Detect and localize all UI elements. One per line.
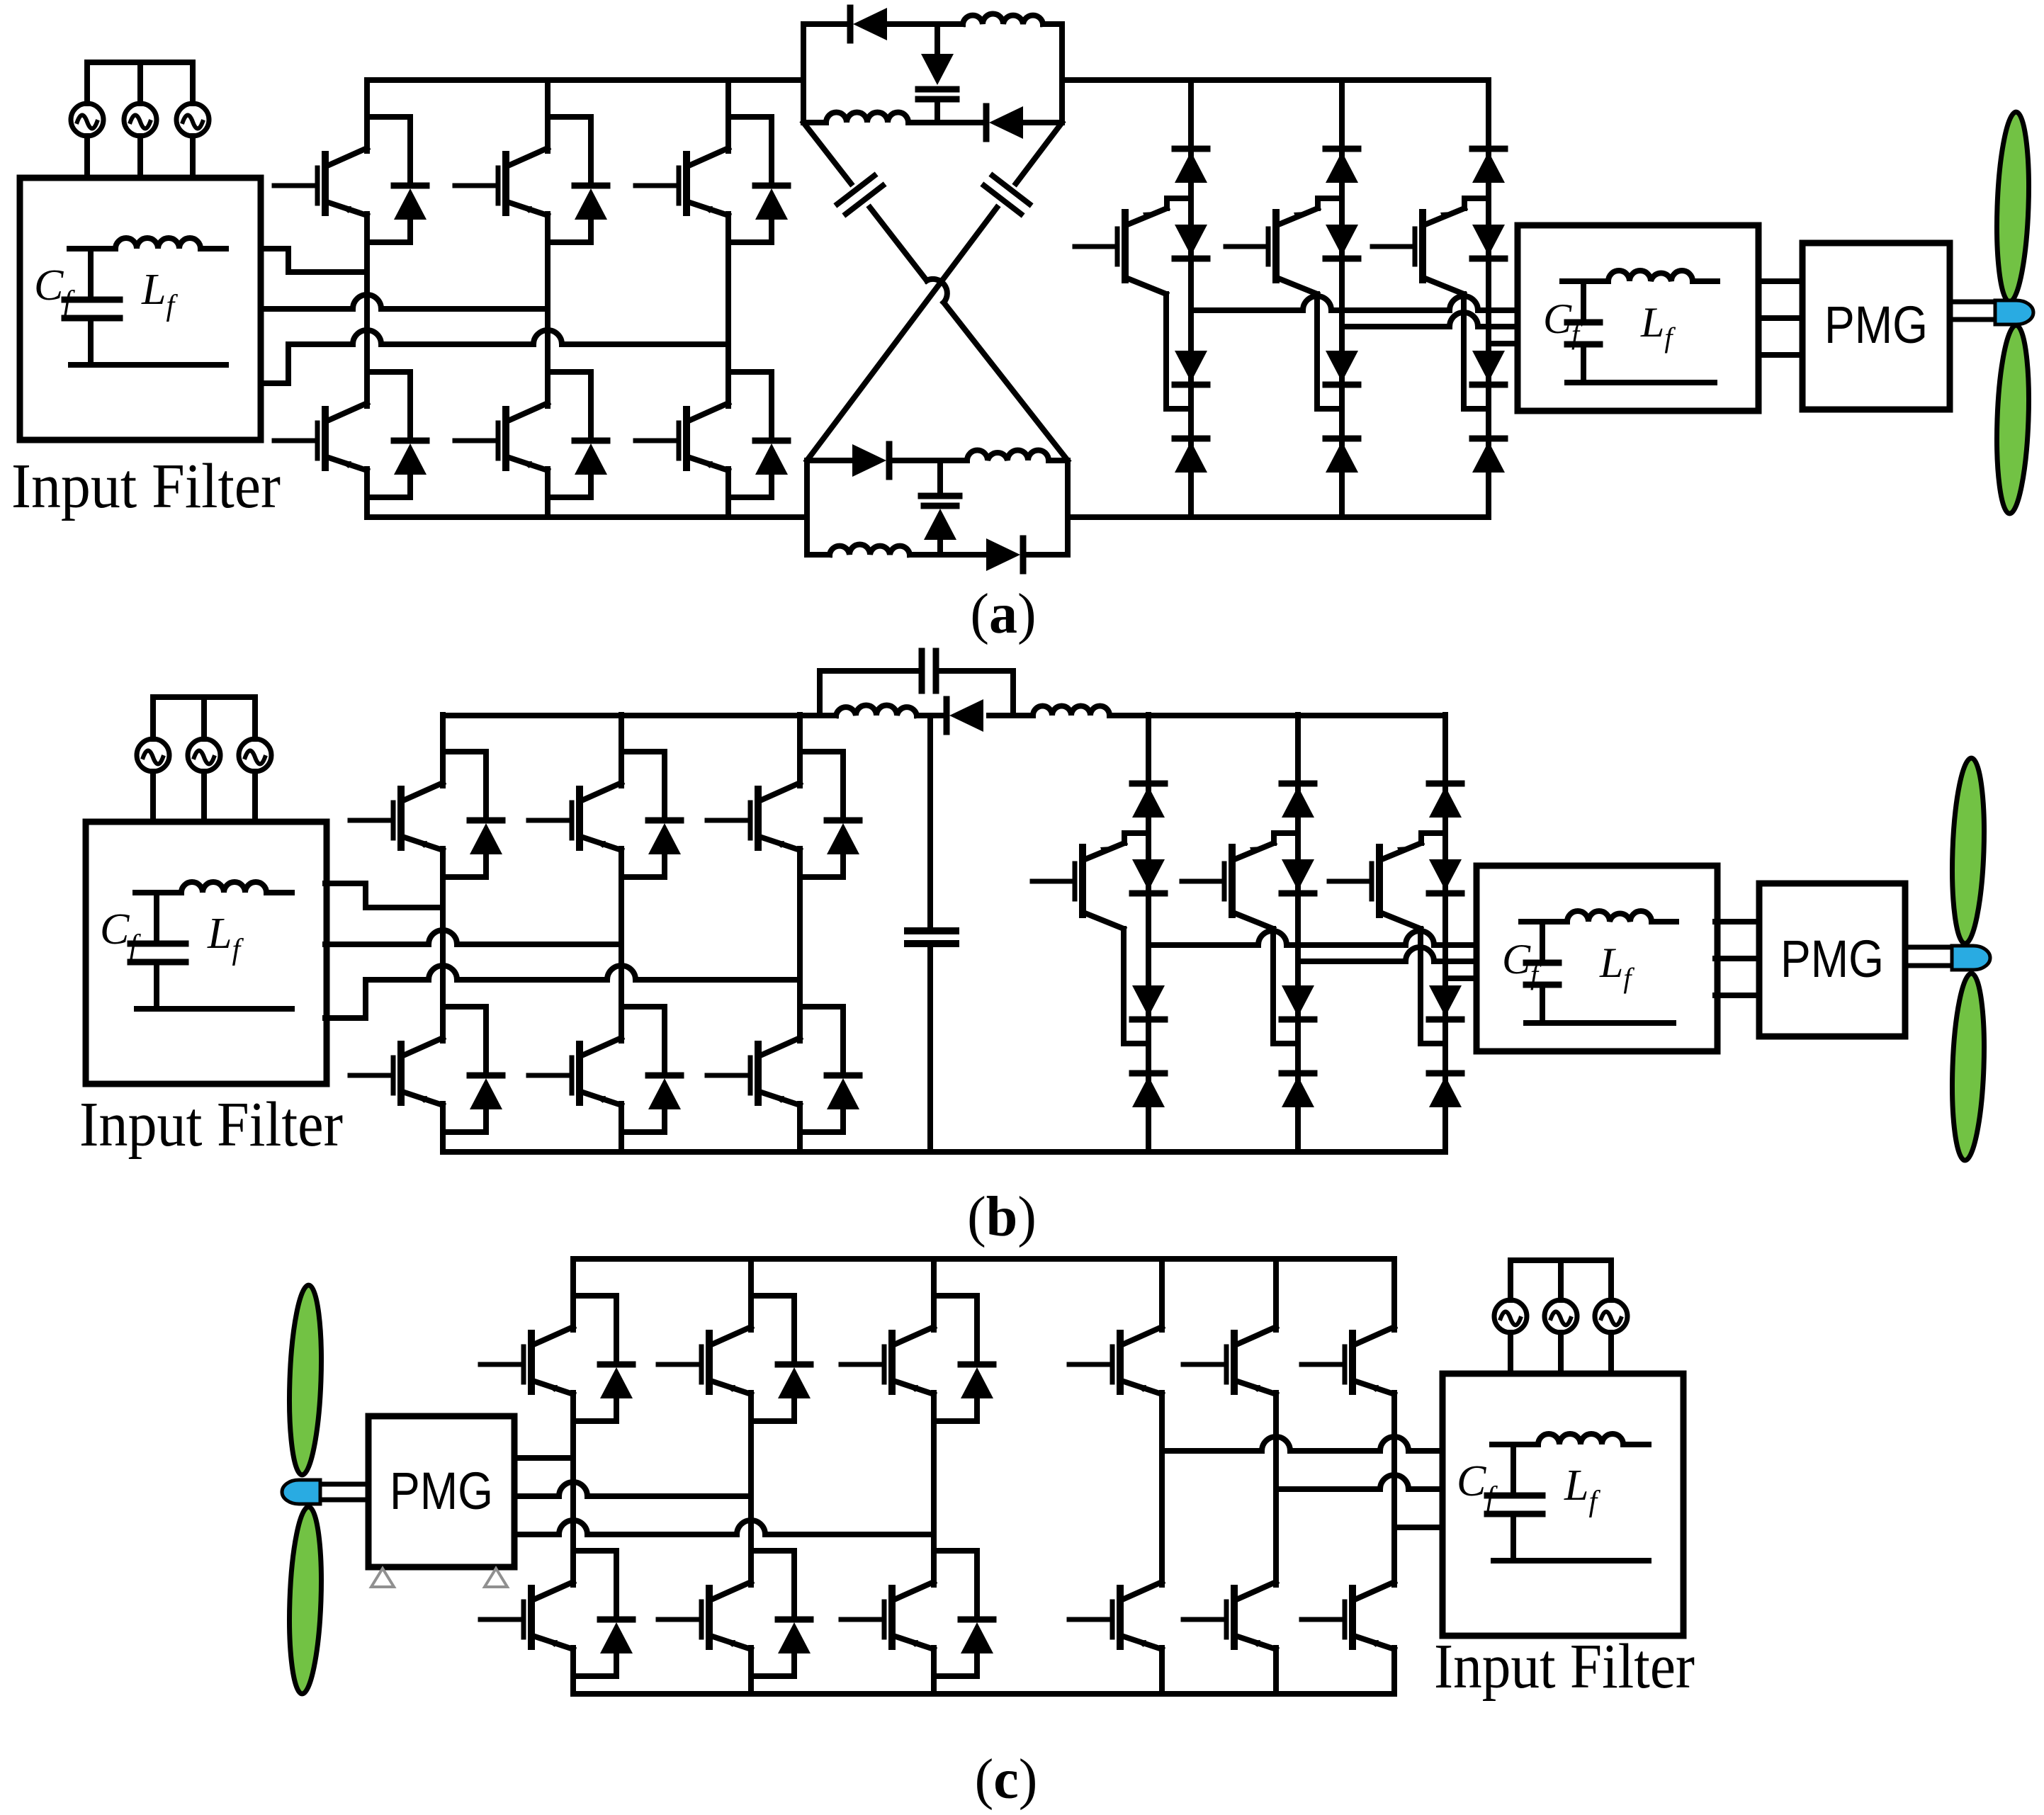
block b PMG box [1759, 883, 1905, 1036]
block a output output filter box [1518, 225, 1758, 411]
wire b output filter bottom rail [1526, 1020, 1673, 1026]
wire a output filter top rail [1562, 278, 1717, 284]
label c input Cf [1457, 1457, 1498, 1514]
inductor a input Lf [115, 238, 201, 249]
capacitor a-C4 (mid) [921, 493, 959, 499]
wire a cross diagonal 1 with hop [803, 123, 1068, 460]
capacitor a output Cf [1567, 281, 1600, 383]
wire c bottom bus [573, 1691, 1394, 1697]
wire b output phase 3 [1445, 976, 1476, 981]
wire c right leg2 emitter to bus [1273, 1676, 1279, 1694]
wire b snubber loop [820, 671, 1013, 716]
AC source b grid2 [188, 697, 220, 822]
diode b-S1 lower-mid [1132, 985, 1165, 1019]
label a input Cf [34, 261, 75, 318]
wire b phase C filter to leg3 [325, 966, 800, 1018]
wire a filter-PMG link 3 [1758, 352, 1802, 358]
inductor a-L4 (bottom-rect bottom edge) [830, 545, 910, 555]
wire c right leg3 midpoint vertical [1391, 1421, 1397, 1585]
node a top-rect right vertical [1059, 24, 1065, 123]
AC source c grid1 [1494, 1260, 1527, 1374]
svg-text:PMG: PMG [1780, 929, 1884, 988]
diode a-S1 bottom [1175, 439, 1207, 473]
transistor a-Q6 with diode a-D6 (lower) [636, 335, 788, 497]
transistor b-Q5 with diode b-D5 (lower) [529, 970, 681, 1132]
AC source c grid2 [1545, 1260, 1577, 1374]
wire c grid phase 1 [1162, 1437, 1442, 1451]
wire a output phase 3 [1489, 341, 1518, 346]
capacitor b-C2 (DC link) [908, 716, 956, 1152]
diode a-D11 (points right) [986, 538, 1023, 571]
inductor b input Lf [181, 882, 266, 893]
wire c input filter bottom rail [1494, 1558, 1649, 1564]
wire a-S2 leg vertical [1339, 80, 1345, 517]
diode a-D9 (mid, points down) [918, 54, 956, 89]
label a Input Filter [11, 451, 281, 521]
wire c shaft [315, 1484, 368, 1500]
diode a-D12 (mid, points up) [924, 506, 956, 540]
wire c right leg3 emitter to bus [1391, 1676, 1397, 1694]
label c input Lf [1564, 1461, 1600, 1518]
transistor b-S2 IGBT [1182, 833, 1298, 915]
diode b-S1 bottom [1132, 1073, 1165, 1107]
wire a VSI bottom bus [367, 514, 807, 520]
svg-text:Input Filter: Input Filter [1434, 1632, 1695, 1702]
diode b-S3 upper-mid [1429, 859, 1462, 893]
wire a-S3 leg vertical [1486, 80, 1491, 517]
diode b-S1 top [1132, 784, 1165, 818]
diode b-S3 bottom [1429, 1073, 1462, 1107]
AC source a grid1 [71, 62, 103, 178]
diode b-S2 lower-mid [1282, 985, 1314, 1019]
wire a bottom-rect bottom edge [807, 552, 1068, 558]
propeller b hub [1952, 946, 1990, 970]
wire a output phase 1 [1191, 296, 1518, 310]
capacitor a-C2 (left diagonal) [837, 176, 883, 214]
AC source b grid3 [239, 697, 271, 822]
transistor b-Q1 with diode b-D1 (upper) [350, 715, 502, 877]
wire c grid source top bus [1511, 1257, 1611, 1263]
capacitor c input Cf [1487, 1444, 1542, 1561]
label b output Lf [1599, 939, 1634, 994]
label (c) [975, 1748, 1038, 1811]
svg-text:(b): (b) [967, 1186, 1037, 1248]
diode a-S2 top [1326, 149, 1358, 183]
transistor c-Q7 (upper, no diode) [1069, 1259, 1162, 1421]
capacitor b-C1 (snubber) [922, 651, 936, 691]
transistor b-Q2 with diode b-D2 (upper) [529, 715, 681, 877]
wire a-S2 emitter bypass [1277, 278, 1342, 409]
inductor a-L2 (top-rect bottom edge) [826, 113, 908, 123]
transistor c-Q3 with diode c-D3 (upper) [841, 1259, 993, 1421]
diode a-S3 upper-mid [1472, 225, 1505, 259]
wire a leg1 emitter to bus [364, 497, 370, 517]
propeller a top blade [1994, 111, 2031, 302]
AC source c grid3 [1595, 1260, 1627, 1374]
wire a bottom-rect mid vertical [937, 460, 943, 555]
wire b-S3 emitter bypass [1380, 912, 1445, 1044]
block c PMG box [368, 1416, 514, 1567]
wire b shaft [1905, 947, 1957, 966]
transistor a-S3 IGBT [1372, 198, 1489, 280]
svg-text:PMG: PMG [1824, 295, 1928, 354]
inductor a-L3 (bottom-rect top edge) [967, 450, 1049, 460]
inductor b-L1 (top bus) [836, 706, 917, 716]
AC source b grid1 [137, 697, 169, 822]
diode a-S1 upper-mid [1175, 225, 1207, 259]
block b output output filter box [1476, 866, 1717, 1051]
label b Input Filter [79, 1090, 343, 1160]
inductor c input Lf [1538, 1434, 1623, 1444]
svg-text:Cf: Cf [1457, 1457, 1498, 1514]
diode a-S3 bottom [1472, 439, 1505, 473]
svg-text:Lf: Lf [141, 266, 178, 322]
label a PMG [1824, 295, 1928, 354]
svg-text:Lf: Lf [1564, 1461, 1600, 1518]
diode a-S2 upper-mid [1326, 225, 1358, 259]
wire a output phase 2 [1342, 312, 1518, 327]
wire a top-rect bottom edge [803, 120, 1062, 125]
transistor a-S2 IGBT [1226, 198, 1342, 280]
wire b leg2 midpoint vertical [619, 877, 624, 1041]
svg-text:Lf: Lf [1599, 939, 1634, 994]
block a PMG box [1802, 243, 1950, 409]
transistor a-Q5 with diode a-D5 (lower) [455, 335, 607, 497]
wire c PMG phase 3 [514, 1520, 934, 1534]
svg-text:Cf: Cf [100, 905, 141, 962]
svg-text:PMG: PMG [390, 1461, 493, 1520]
wire a leg3 emitter to bus [725, 497, 731, 517]
propeller a hub [1995, 300, 2033, 324]
wire a input filter top rail [69, 246, 226, 251]
wire b-S3 leg vertical [1442, 715, 1448, 1152]
wire b output phase 1 [1148, 931, 1476, 945]
wire a leg2 emitter to bus [545, 497, 550, 517]
diode b-S3 top [1429, 784, 1462, 818]
wire b leg2 emitter to bus [619, 1132, 624, 1152]
label b input Lf [207, 910, 244, 966]
wire a output filter bottom rail [1567, 380, 1715, 385]
propeller c top blade [286, 1284, 324, 1475]
wire a phase A filter to leg1 [261, 249, 367, 272]
node a bottom-rect right vertical [1065, 460, 1071, 555]
transistor b-Q4 with diode b-D4 (lower) [350, 970, 502, 1132]
wire b-S2 leg vertical [1295, 715, 1301, 1152]
wire c left leg2 midpoint vertical [748, 1421, 754, 1585]
wire a-S3 emitter bypass [1423, 278, 1489, 409]
svg-text:(c): (c) [975, 1748, 1038, 1811]
svg-text:Cf: Cf [1543, 295, 1583, 350]
wire c left leg1 emitter to bus [570, 1676, 576, 1694]
ground c right support [485, 1568, 507, 1587]
wire a grid source top bus [87, 60, 193, 65]
diode b-S3 lower-mid [1429, 985, 1462, 1019]
label b output Cf [1502, 936, 1542, 990]
wire b leg3 midpoint vertical [797, 877, 803, 1041]
wire b output filter top rail [1521, 919, 1676, 925]
wire c right leg2 midpoint vertical [1273, 1421, 1279, 1585]
svg-text:Lf: Lf [207, 910, 244, 966]
wire c grid phase 2 [1276, 1475, 1442, 1489]
wire a right bottom bus [1068, 514, 1489, 520]
svg-text:Input Filter: Input Filter [11, 451, 281, 521]
wire b leg1 emitter to bus [440, 1132, 446, 1152]
capacitor a-C3 (right diagonal) [984, 176, 1029, 214]
propeller b bottom blade [1949, 973, 1987, 1160]
wire c right leg1 midpoint vertical [1159, 1421, 1165, 1585]
transistor c-Q1 with diode c-D1 (upper) [480, 1259, 633, 1421]
inductor b output Lf [1567, 911, 1651, 922]
block a input Input Filter box [20, 178, 261, 440]
wire b DC bottom bus [443, 1149, 1445, 1155]
inductor b-L2 (top bus) [1033, 706, 1109, 716]
transistor c-Q12 (lower, no diode) [1302, 1514, 1394, 1676]
diode a-S3 lower-mid [1472, 351, 1505, 385]
diode b-S2 bottom [1282, 1073, 1314, 1107]
wire b leg3 emitter to bus [797, 1132, 803, 1152]
diode a-S1 top [1175, 149, 1207, 183]
node a bottom-rect left vertical [804, 460, 810, 555]
wire c grid phase 3 [1394, 1525, 1442, 1530]
wire a top-rect mid vertical [935, 24, 940, 123]
wire b filter-PMG link 3 [1715, 993, 1759, 998]
transistor a-S1 IGBT [1075, 198, 1191, 280]
svg-text:Lf: Lf [1640, 299, 1676, 354]
transistor b-S3 IGBT [1329, 833, 1445, 915]
wire a bottom-rect top edge [807, 458, 1068, 463]
wire a leg3 midpoint vertical [725, 242, 731, 406]
label b PMG [1780, 929, 1884, 988]
inductor a-L1 (top edge) [963, 14, 1043, 24]
transistor a-Q1 with diode a-D1 (upper) [274, 80, 427, 242]
label c Input Filter [1434, 1632, 1695, 1702]
capacitor a-C1 (mid) [918, 96, 956, 103]
transistor c-Q6 with diode c-D6 (lower) [841, 1514, 993, 1676]
wire c right leg1 emitter to bus [1159, 1676, 1165, 1694]
wire b grid source top bus [153, 694, 255, 700]
wire b-S1 leg vertical [1146, 715, 1151, 1152]
wire c left leg2 emitter to bus [748, 1676, 754, 1694]
label b input Cf [100, 905, 141, 962]
diode a-D8 (top-rect bottom edge, points left) [986, 106, 1023, 139]
wire c left leg1 midpoint vertical [570, 1421, 576, 1585]
svg-text:Cf: Cf [1502, 936, 1542, 990]
capacitor a input Cf [64, 249, 120, 365]
propeller a bottom blade [1994, 324, 2031, 514]
diode a-S2 bottom [1326, 439, 1358, 473]
diode b-S2 upper-mid [1282, 859, 1314, 893]
diode b-S1 upper-mid [1132, 859, 1165, 893]
propeller b top blade [1949, 757, 1987, 944]
wire a right top bus [1062, 77, 1489, 83]
transistor c-Q9 (upper, no diode) [1302, 1259, 1394, 1421]
wire a VSI top bus [367, 77, 803, 83]
propeller c hub [282, 1480, 320, 1504]
svg-text:(a): (a) [970, 583, 1036, 645]
block c input Input Filter box [1442, 1374, 1683, 1636]
diode b-D7 (points left) [947, 699, 983, 732]
transistor c-Q8 (upper, no diode) [1183, 1259, 1276, 1421]
capacitor b input Cf [130, 893, 186, 1009]
transistor c-Q2 with diode c-D2 (upper) [658, 1259, 811, 1421]
transistor c-Q11 (lower, no diode) [1183, 1514, 1276, 1676]
svg-text:Input Filter: Input Filter [79, 1090, 343, 1160]
label a output Cf [1543, 295, 1583, 350]
propeller c bottom blade [286, 1506, 324, 1694]
ground c left support [371, 1568, 394, 1587]
transistor b-Q6 with diode b-D6 (lower) [707, 970, 859, 1132]
wire a leg2 midpoint vertical [545, 242, 550, 406]
node a top-rect left vertical [801, 24, 806, 123]
wire b input filter bottom rail [137, 1006, 292, 1012]
label a input Lf [141, 266, 178, 322]
capacitor b output Cf [1526, 922, 1559, 1023]
diode a-D10 (points right) [852, 444, 889, 477]
wire a input filter bottom rail [71, 362, 226, 368]
wire a filter-PMG link 1 [1758, 278, 1802, 284]
transistor a-Q4 with diode a-D4 (lower) [274, 335, 427, 497]
diode a-S1 lower-mid [1175, 351, 1207, 385]
wire a leg1 midpoint vertical [364, 242, 370, 406]
label a output Lf [1640, 299, 1676, 354]
diode b-S2 top [1282, 784, 1314, 818]
wire b-S2 emitter bypass [1233, 912, 1298, 1044]
wire c left leg3 midpoint vertical [931, 1421, 937, 1585]
transistor a-Q2 with diode a-D2 (upper) [455, 80, 607, 242]
transistor c-Q10 (lower, no diode) [1069, 1514, 1162, 1676]
inductor a output Lf [1608, 271, 1693, 281]
AC source a grid3 [176, 62, 209, 178]
wire b output phase 2 [1298, 947, 1476, 961]
AC source a grid2 [124, 62, 157, 178]
wire a phase B filter to leg2 [261, 295, 548, 309]
wire b-S1 emitter bypass [1083, 912, 1148, 1044]
wire c input filter top rail [1492, 1442, 1649, 1447]
block b input Input Filter box [86, 822, 327, 1084]
wire a filter-PMG link 2 [1758, 315, 1802, 321]
label (a) [970, 583, 1036, 645]
wire c left leg3 emitter to bus [931, 1676, 937, 1694]
wire b filter-PMG link 1 [1715, 919, 1759, 925]
wire a-S1 emitter bypass [1126, 278, 1191, 409]
transistor b-Q3 with diode b-D3 (upper) [707, 715, 859, 877]
wire c PMG phase 1 [514, 1455, 573, 1461]
transistor c-Q4 with diode c-D4 (lower) [480, 1514, 633, 1676]
diode a-D7 (top edge, points left) [850, 8, 887, 40]
wire a cross diagonal 2 [807, 123, 1062, 460]
wire a phase C filter to leg3 [261, 330, 728, 383]
diode a-S2 lower-mid [1326, 351, 1358, 385]
diode a-S3 top [1472, 149, 1505, 183]
transistor a-Q3 with diode a-D3 (upper) [636, 80, 788, 242]
wire c PMG phase 2 [514, 1482, 751, 1496]
wire b DC top bus [443, 713, 1445, 718]
wire b phase B filter to leg2 [325, 930, 621, 944]
wire a top-rect top edge [803, 21, 1062, 27]
transistor c-Q5 with diode c-D5 (lower) [658, 1514, 811, 1676]
wire b phase A filter to leg1 [325, 883, 443, 907]
transistor b-S1 IGBT [1032, 833, 1148, 915]
svg-text:Cf: Cf [34, 261, 75, 318]
wire b filter-PMG link 2 [1715, 956, 1759, 961]
wire a shaft [1950, 302, 2001, 320]
wire c top bus [573, 1256, 1394, 1262]
wire b leg1 midpoint vertical [440, 877, 446, 1041]
wire b input filter top rail [135, 890, 292, 895]
label (b) [967, 1186, 1037, 1248]
wire a-S1 leg vertical [1188, 80, 1194, 517]
label c PMG [390, 1461, 493, 1520]
